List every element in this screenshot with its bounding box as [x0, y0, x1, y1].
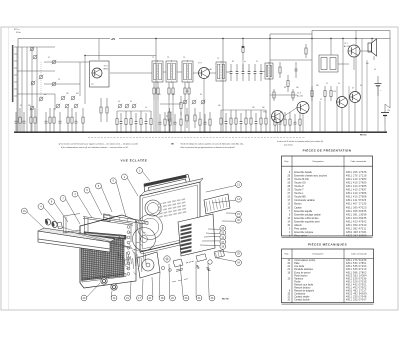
wire antenna mid — [17, 70, 55, 72]
junction on bus — [199, 132, 200, 133]
junction on bus — [120, 132, 121, 133]
svg-text:Touche L: Touche L — [294, 193, 304, 195]
battery B1 9V — [381, 104, 389, 124]
callout 27 — [202, 239, 226, 245]
rear cabinet bottom lip — [140, 238, 202, 254]
resistor — [260, 110, 262, 132]
washer 1 — [161, 266, 164, 269]
svg-text:Cadran: Cadran — [294, 206, 302, 209]
bracket clip — [57, 222, 63, 229]
wire vertical x362 — [361, 86, 363, 132]
wire TR5 emitter — [341, 108, 343, 133]
svg-text:100: 100 — [366, 63, 369, 65]
resistor — [34, 108, 36, 132]
resistor — [289, 112, 291, 132]
svg-text:T5: T5 — [217, 58, 219, 60]
svg-text:470: 470 — [158, 94, 161, 96]
capacitor IF strip — [254, 64, 257, 81]
wire mixer input — [44, 83, 80, 85]
svg-text:10k: 10k — [218, 105, 221, 107]
driver transformer T6 — [319, 55, 338, 72]
junction on bus — [75, 132, 76, 133]
chassis rail upper — [83, 217, 133, 226]
contact spring 1 — [206, 267, 211, 270]
resistor R25 — [324, 86, 326, 101]
junction on bus — [36, 132, 37, 133]
junction on bus — [19, 132, 20, 133]
svg-text:4811 456 60635: 4811 456 60635 — [346, 210, 367, 213]
svg-text:T4: T4 — [183, 57, 185, 59]
callout 9 — [84, 187, 102, 215]
wire TR2 emitter to bus — [203, 79, 205, 133]
wire IF link 3 — [193, 72, 199, 74]
svg-text:1k: 1k — [338, 83, 340, 85]
capacitor — [204, 114, 207, 132]
table pieces mecaniques row 21 Rondelle &#233;lastique — [288, 268, 367, 271]
svg-text:4811 410 27987: 4811 410 27987 — [346, 189, 367, 192]
resistor — [220, 110, 222, 132]
front cabinet left edge — [79, 226, 81, 283]
svg-text:220: 220 — [186, 91, 189, 93]
transistor TR3 AF preamp — [272, 111, 284, 123]
ferrite rod antenna — [12, 45, 14, 102]
wire IF link 4 — [209, 72, 216, 74]
svg-text:(voir texte): (voir texte) — [284, 143, 293, 146]
junction on bus — [34, 132, 35, 133]
svg-text:Touche P: Touche P — [294, 186, 304, 188]
table pieces mecaniques row 22 Axe facile — [288, 265, 367, 268]
wire cluster B top — [117, 110, 151, 112]
resistor — [49, 108, 51, 132]
svg-text:la valeur de R est liée au tra: la valeur de R est liée au transistor ut… — [277, 140, 323, 143]
capacitor — [59, 112, 62, 132]
junction on bus — [16, 132, 17, 133]
trimmer capacitor — [52, 60, 57, 65]
junction on bus — [59, 132, 60, 133]
tuning gang dial — [142, 259, 154, 271]
wire vertical battery feed — [389, 31, 391, 109]
detector coil L6 — [265, 62, 273, 80]
capacitor IF strip — [260, 64, 263, 81]
table pieces presentation row 24 Touche M.GW — [288, 178, 367, 181]
svg-text:osc: osc — [91, 84, 94, 86]
callout 29 — [218, 251, 241, 257]
svg-text:TO 7: TO 7 — [198, 63, 202, 65]
wire cluster D top — [221, 109, 266, 111]
junction on bus — [135, 132, 136, 133]
wire vertical x37 — [36, 47, 38, 132]
resistor under IF — [168, 82, 170, 100]
svg-text:4811 350 47040: 4811 350 47040 — [346, 224, 367, 227]
pulley assembly — [164, 256, 170, 262]
capacitor — [294, 114, 297, 132]
table pieces mecaniques bottom double line — [282, 303, 374, 305]
table pieces presentation row 6 Pi&#232;ce arri&#232;re — [289, 235, 367, 238]
resistor — [130, 111, 132, 132]
junction on bus — [265, 132, 266, 133]
rear cabinet inner edge — [143, 185, 198, 249]
svg-text:Contact double: Contact double — [294, 299, 310, 302]
resistor — [199, 112, 201, 132]
svg-text:4k7: 4k7 — [76, 93, 79, 95]
antenna tap 4 — [14, 67, 17, 69]
junction on bus — [235, 132, 236, 133]
chrome trim strip top face — [38, 228, 115, 242]
resistor — [82, 108, 84, 132]
junction on bus — [289, 132, 290, 133]
transistor TR6 output — [350, 92, 361, 103]
svg-text:4811 255 07047: 4811 255 07047 — [346, 299, 367, 302]
svg-text:Bouton: Bouton — [294, 203, 302, 206]
transistor TR1 oscillator — [92, 68, 102, 78]
IF transformer T3 — [166, 60, 177, 83]
svg-text:4811 410 27988: 4811 410 27988 — [346, 196, 367, 199]
wire vertical x325 — [324, 101, 326, 132]
junction on bus — [67, 132, 68, 133]
transistor TR4 driver — [297, 102, 309, 114]
lower rail — [84, 241, 128, 247]
wire — [54, 94, 56, 110]
junction on bus — [15, 132, 16, 133]
wire IF resistor drop — [172, 100, 174, 132]
rear cabinet speaker hole outer — [145, 200, 161, 216]
table pieces presentation column line 1 — [291, 156, 293, 236]
junction on bus — [26, 132, 27, 133]
svg-text:Rep.: Rep. — [285, 161, 290, 163]
junction converter — [84, 55, 85, 56]
svg-text:Ensemble coffret arrière: Ensemble coffret arrière — [294, 217, 319, 220]
junction on bus — [180, 132, 181, 133]
callout 18 — [159, 272, 165, 301]
svg-text:Désignation: Désignation — [313, 253, 325, 256]
table pieces presentation header separator — [282, 165, 373, 167]
svg-text:4891 408 47031: 4891 408 47031 — [346, 231, 367, 234]
wire TR7 emitter down — [353, 57, 355, 70]
trimmer capacitor — [30, 106, 35, 111]
wire IF resistor drop — [153, 100, 155, 132]
contact spring 2 — [196, 266, 200, 269]
junction on bus — [203, 132, 204, 133]
svg-text:8,2: 8,2 — [360, 85, 362, 87]
svg-text:4811 407 27135: 4811 407 27135 — [346, 203, 367, 206]
junction on bus — [116, 132, 117, 133]
wire IF link 1 — [163, 71, 166, 73]
resistor under IF — [153, 82, 155, 100]
capacitor — [174, 114, 177, 132]
junction on bus — [294, 132, 295, 133]
IF transformer T4 — [182, 60, 193, 83]
loudspeaker cone — [138, 215, 163, 240]
junction on bus — [255, 132, 256, 133]
callout 21 — [147, 277, 153, 301]
resistor — [274, 112, 276, 132]
wire vertical x312 — [311, 31, 313, 133]
junction on bus — [169, 132, 170, 133]
wire R15 down — [242, 60, 244, 72]
resistor R13 — [194, 108, 196, 128]
svg-text:CL 2: CL 2 — [344, 43, 348, 45]
callout 31 — [196, 261, 202, 301]
trimmer capacitor — [201, 100, 206, 105]
trimmer capacitor — [65, 104, 70, 109]
junction on bus — [284, 132, 285, 133]
junction on bus — [260, 132, 261, 133]
svg-text:a) les tensions ont été mesuré: a) les tensions ont été mesurées par rap… — [59, 142, 138, 145]
junction on +9V rail — [330, 38, 331, 39]
junction on bus — [277, 132, 278, 133]
callout 33 — [208, 263, 215, 301]
wire vertical x362 upper — [361, 39, 363, 87]
callout 12 — [111, 291, 117, 301]
trimmer capacitor — [56, 104, 61, 109]
svg-text:150: 150 — [252, 107, 255, 109]
antenna tap 3 — [14, 60, 17, 62]
antenna tap 7 — [14, 88, 17, 90]
resistor — [164, 112, 166, 132]
svg-text:Ressort de poignée: Ressort de poignée — [294, 290, 315, 293]
resistor — [180, 112, 182, 132]
resistor — [125, 111, 127, 132]
svg-text:1k: 1k — [145, 107, 147, 109]
wire vertical x17 — [16, 47, 18, 132]
callout 6 — [110, 178, 126, 217]
svg-text:T3: T3 — [167, 57, 169, 59]
svg-text:Ressort tendeur: Ressort tendeur — [294, 287, 311, 290]
dashes detail — [172, 279, 188, 282]
wire vertical x320 — [319, 101, 321, 132]
capacitor — [15, 112, 18, 132]
wire battery to bus — [384, 124, 386, 132]
capacitor — [23, 112, 26, 132]
table pieces mecaniques row 18 Ecrou de percer — [288, 271, 367, 274]
resistor R21 — [273, 89, 275, 101]
svg-text:68: 68 — [284, 87, 286, 89]
chrome trim strip shading — [38, 239, 110, 249]
svg-text:Glissoir: Glissoir — [294, 224, 302, 227]
capacitor — [279, 114, 282, 132]
wire vertical x18 — [17, 39, 19, 133]
svg-text:AC 126: AC 126 — [344, 45, 350, 48]
junction on bus — [269, 132, 270, 133]
junction on bus — [225, 132, 226, 133]
resistor — [53, 108, 55, 132]
junction on +9V rail — [355, 38, 356, 39]
wire battery feed elbow — [385, 104, 390, 108]
trimmer capacitor — [39, 75, 44, 80]
antenna tap 6 — [14, 81, 17, 83]
capacitor — [225, 113, 228, 132]
speaker grille hatch — [82, 239, 125, 281]
callout 1 — [137, 168, 150, 181]
svg-text:1n: 1n — [244, 61, 246, 63]
table pieces presentation row 6 Ensemble fa&#231;ade — [289, 171, 367, 174]
trimmer capacitor — [192, 100, 197, 105]
junction on bus — [164, 132, 165, 133]
svg-text:osc: osc — [44, 94, 47, 96]
callout 34 — [217, 258, 241, 266]
ferrite rod segment lines — [112, 216, 129, 222]
trimmer capacitor — [125, 104, 130, 109]
svg-text:330: 330 — [316, 85, 319, 87]
table pieces presentation row 5 Ensemble poulage cadran — [289, 213, 367, 216]
junction on bus — [279, 132, 280, 133]
junction on bus — [21, 132, 22, 133]
antenna tap 1 — [14, 46, 17, 48]
ferrite rod coil hatch — [135, 219, 147, 224]
callout 15 — [226, 211, 241, 217]
table pieces presentation row 25 Touche T — [288, 189, 367, 192]
svg-text:C2: C2 — [58, 79, 60, 81]
tuning mechanism detail lines — [114, 232, 145, 274]
svg-text:PIÈCES MÉCANIQUES: PIÈCES MÉCANIQUES — [308, 242, 347, 247]
svg-text:Touche GO: Touche GO — [294, 182, 306, 184]
table pieces mecaniques row 9 Ressort de poign&#233;e — [289, 290, 367, 293]
svg-text:39: 39 — [200, 94, 202, 96]
table pieces presentation row 28 Touche P — [288, 185, 367, 188]
trimmer capacitor — [183, 100, 188, 105]
callout 28 — [200, 244, 226, 250]
antenna tap 8 — [14, 95, 17, 97]
junction on +9V rail — [371, 38, 372, 39]
screw — [208, 260, 212, 264]
ferrite rod mount — [104, 214, 111, 222]
junction on bus — [220, 132, 221, 133]
svg-text:47: 47 — [20, 105, 22, 107]
transistor TR2 IF amp — [199, 68, 210, 79]
resistor R22 — [292, 89, 294, 101]
svg-text:82: 82 — [232, 61, 234, 63]
capacitor IF strip — [248, 64, 251, 81]
callout 24 — [208, 225, 226, 231]
svg-text:Poulie: Poulie — [294, 281, 301, 283]
svg-text:Patte: Patte — [294, 262, 300, 265]
resistor R17 — [279, 62, 281, 78]
wire TR7 to speaker — [360, 50, 372, 52]
table pieces presentation row 23 Touche MD — [288, 196, 367, 199]
svg-text:RE 756: RE 756 — [222, 299, 230, 301]
svg-text:2k2: 2k2 — [262, 107, 265, 109]
junction on bus — [125, 132, 126, 133]
table pieces mecaniques row Poulie — [294, 280, 367, 283]
trimmer capacitor — [39, 97, 44, 102]
junction on bus — [302, 132, 303, 133]
speaker grille base tone — [82, 239, 125, 281]
chrome trim strip — [38, 231, 110, 252]
svg-text:Commutateur (unité): Commutateur (unité) — [294, 259, 315, 262]
table pieces mecaniques row 20 Patte — [288, 262, 367, 265]
svg-text:Plexi cadran: Plexi cadran — [294, 228, 307, 231]
wire top mid rail — [270, 33, 312, 35]
table pieces mecaniques row Ressort cour facile — [294, 284, 367, 287]
table pieces presentation row 10 Cadran — [288, 206, 367, 209]
wire IF link 5 — [226, 71, 231, 73]
carrying handle — [144, 175, 191, 199]
knob cylinder A — [44, 218, 51, 226]
resistor — [30, 108, 32, 132]
junction on bus — [299, 132, 300, 133]
wire IF resistor drop — [157, 100, 159, 132]
transformer T6 coils — [321, 58, 327, 70]
page fold line — [8, 27, 10, 310]
capacitor IF strip — [236, 64, 239, 81]
resistor under IF — [172, 82, 174, 100]
svg-text:120: 120 — [66, 93, 69, 95]
svg-text:CL 3: CL 3 — [297, 93, 301, 95]
IF transformer T2 — [152, 60, 163, 83]
junction on bus — [23, 132, 24, 133]
junction on bus — [49, 132, 50, 133]
callout 16 — [21, 208, 44, 228]
pcb outline dashed — [88, 137, 305, 139]
junction on bus — [245, 132, 246, 133]
svg-text:TO 4: TO 4 — [104, 66, 108, 68]
wire osc supply upper — [98, 39, 100, 49]
wire vertical x156 — [155, 39, 157, 133]
callout 4 — [38, 204, 58, 224]
resistor — [169, 112, 171, 132]
table pieces mecaniques row 31 Contact simple — [288, 296, 367, 299]
wire IF link 6 — [261, 71, 265, 72]
rear cabinet speaker hole inner — [148, 203, 159, 214]
svg-text:2k2: 2k2 — [28, 105, 31, 107]
resistor R18 — [287, 75, 289, 92]
table pieces presentation row 12 Bouton — [288, 203, 367, 206]
wire speaker top — [371, 39, 373, 44]
resistor — [299, 112, 301, 132]
trimmer capacitor — [74, 104, 79, 109]
svg-text:1k5: 1k5 — [296, 87, 299, 89]
svg-text:Ensemble poulage cadran: Ensemble poulage cadran — [294, 213, 321, 216]
callout 3 — [72, 191, 92, 218]
table pieces presentation row 29 Ensemble chassis avec touches — [288, 174, 367, 177]
resistor — [245, 110, 247, 132]
antenna tap 5 — [14, 74, 17, 76]
svg-text:Ecrou de percer: Ecrou de percer — [294, 271, 311, 274]
transistor TR7 driver top — [348, 45, 360, 57]
resistor — [284, 112, 286, 132]
dial window slot — [84, 232, 126, 239]
wire AF coupling — [270, 94, 297, 96]
rear cabinet vent slots — [158, 198, 186, 218]
table pieces mecaniques column line 1 — [291, 249, 293, 303]
resistor — [116, 111, 118, 132]
wire speaker bottom — [373, 56, 375, 60]
carrying handle top bar — [144, 175, 187, 187]
junction on +9V rail — [242, 38, 243, 39]
junction on bus — [145, 132, 146, 133]
wire TR6 collector — [355, 31, 357, 92]
cabinet side holes — [127, 226, 130, 276]
wire vertical x22 — [21, 47, 23, 132]
svg-text:5k6: 5k6 — [172, 94, 175, 96]
svg-text:F Dét.: F Dét. — [16, 31, 22, 34]
dial drum hub — [141, 236, 148, 243]
svg-text:Code commande: Code commande — [350, 161, 367, 163]
junction on bus — [53, 132, 54, 133]
trimmer capacitor — [30, 47, 35, 52]
svg-text:27: 27 — [352, 88, 354, 90]
wire — [79, 62, 81, 96]
resistor under IF — [157, 82, 159, 100]
dial window highlight — [86, 234, 124, 237]
capacitor — [75, 112, 78, 132]
wire AGC — [160, 103, 181, 105]
wire IF resistor drop — [168, 100, 170, 132]
wire vertical x349 — [348, 86, 350, 132]
svg-text:4811 404 09035: 4811 404 09035 — [346, 217, 367, 220]
svg-text:50: 50 — [130, 101, 132, 103]
electrolytic capacitor C30 — [375, 76, 382, 96]
